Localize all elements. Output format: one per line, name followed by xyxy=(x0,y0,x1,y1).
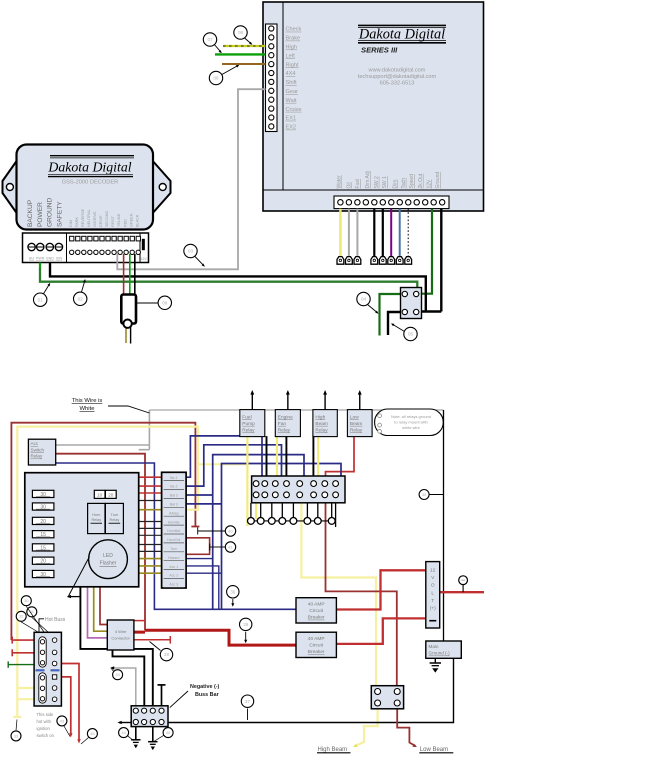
svg-text:Oil: Oil xyxy=(347,182,353,188)
svg-text:SECOND: SECOND xyxy=(105,210,109,227)
svg-text:12V: 12V xyxy=(140,257,147,261)
svg-text:30: 30 xyxy=(40,572,46,578)
svg-text:GSS-2000 DECODER: GSS-2000 DECODER xyxy=(62,180,119,186)
svg-text:44: 44 xyxy=(121,730,126,735)
svg-text:15: 15 xyxy=(40,532,46,538)
svg-text:Bat 3: Bat 3 xyxy=(170,494,178,498)
svg-text:www.dakotadigital.com: www.dakotadigital.com xyxy=(368,68,426,74)
svg-text:EX2: EX2 xyxy=(286,125,297,131)
svg-text:(+): (+) xyxy=(430,606,436,612)
svg-text:O/DRIVE: O/DRIVE xyxy=(93,211,97,227)
svg-text:EX1: EX1 xyxy=(286,116,297,122)
svg-text:03: 03 xyxy=(188,249,194,254)
svg-text:DIM: DIM xyxy=(69,220,73,227)
svg-text:HornOut: HornOut xyxy=(167,538,180,542)
svg-text:High: High xyxy=(315,415,325,421)
svg-text:Relay: Relay xyxy=(31,454,43,459)
svg-text:Fan: Fan xyxy=(278,421,287,427)
svg-text:Negative (-): Negative (-) xyxy=(190,684,220,690)
svg-text:39: 39 xyxy=(243,622,248,627)
svg-text:ignition: ignition xyxy=(37,726,51,731)
svg-text:05: 05 xyxy=(408,332,414,337)
svg-text:09: 09 xyxy=(162,300,168,305)
svg-text:Hot Buss: Hot Buss xyxy=(45,617,66,623)
svg-text:Speed: Speed xyxy=(409,174,415,189)
svg-text:04: 04 xyxy=(361,297,367,302)
svg-text:37: 37 xyxy=(245,699,250,704)
svg-text:HornBat: HornBat xyxy=(167,529,180,533)
svg-text:techsupport@dakotadigital.com: techsupport@dakotadigital.com xyxy=(358,74,437,80)
svg-text:34: 34 xyxy=(115,672,120,677)
svg-text:Beam: Beam xyxy=(315,421,328,427)
svg-text:41: 41 xyxy=(228,544,233,549)
svg-text:RED: RED xyxy=(123,219,127,227)
svg-text:Relay: Relay xyxy=(350,427,363,433)
svg-text:YEL/BK: YEL/BK xyxy=(117,213,121,227)
svg-text:Acc 2: Acc 2 xyxy=(169,574,178,578)
svg-text:Horn: Horn xyxy=(92,513,100,517)
svg-text:Flasher: Flasher xyxy=(100,561,117,567)
svg-text:PWR: PWR xyxy=(36,257,45,261)
svg-text:4 Wire: 4 Wire xyxy=(115,629,127,634)
svg-text:32: 32 xyxy=(19,614,24,619)
svg-text:2k Out: 2k Out xyxy=(418,173,424,188)
svg-text:Beam: Beam xyxy=(350,421,363,427)
svg-text:BU: BU xyxy=(29,257,34,261)
svg-text:Acc 3: Acc 3 xyxy=(169,583,178,587)
svg-text:02: 02 xyxy=(78,296,84,301)
svg-text:LED: LED xyxy=(103,553,113,559)
svg-text:07: 07 xyxy=(207,37,213,42)
svg-text:Circuit: Circuit xyxy=(309,608,323,614)
svg-text:BLACK: BLACK xyxy=(135,214,139,227)
svg-text:IGN: IGN xyxy=(56,257,63,261)
svg-text:Relay: Relay xyxy=(278,427,291,433)
svg-text:43: 43 xyxy=(60,718,65,723)
svg-text:SW 2: SW 2 xyxy=(374,176,380,188)
svg-text:Engine: Engine xyxy=(278,415,293,421)
svg-text:POWER: POWER xyxy=(37,202,44,227)
svg-text:Wait: Wait xyxy=(286,98,297,104)
svg-text:Ground: Ground xyxy=(435,172,441,189)
svg-text:30: 30 xyxy=(40,492,46,498)
svg-text:GREEN: GREEN xyxy=(129,213,133,227)
svg-text:Hazard: Hazard xyxy=(168,556,179,560)
svg-text:NEUTRAL: NEUTRAL xyxy=(87,209,91,227)
svg-text:Check: Check xyxy=(286,27,302,33)
svg-text:45: 45 xyxy=(90,731,95,736)
svg-text:Ba 1: Ba 1 xyxy=(170,476,177,480)
svg-text:Connector: Connector xyxy=(111,636,130,641)
svg-text:Brake: Brake xyxy=(286,36,301,42)
svg-text:High: High xyxy=(286,45,298,51)
svg-text:Buss Bar: Buss Bar xyxy=(195,692,220,698)
svg-text:Fuel: Fuel xyxy=(355,179,361,189)
svg-text:This Wire is: This Wire is xyxy=(72,398,103,404)
svg-text:A/Bag: A/Bag xyxy=(169,511,179,515)
svg-text:12V: 12V xyxy=(426,179,432,189)
svg-text:40 AMP: 40 AMP xyxy=(308,636,325,642)
svg-text:10: 10 xyxy=(97,492,103,497)
svg-text:Breaker: Breaker xyxy=(308,615,325,621)
svg-text:T: T xyxy=(431,598,434,604)
svg-text:Pump: Pump xyxy=(242,421,255,427)
svg-text:Note: all relays ground: Note: all relays ground xyxy=(391,414,431,419)
svg-text:FIRST: FIRST xyxy=(111,215,115,227)
svg-text:20: 20 xyxy=(108,492,114,497)
svg-text:Cruise: Cruise xyxy=(286,107,302,113)
svg-text:38: 38 xyxy=(164,652,169,657)
svg-text:switch on: switch on xyxy=(37,733,55,738)
svg-text:hot with: hot with xyxy=(37,719,52,724)
svg-text:08: 08 xyxy=(238,30,244,35)
svg-text:40 AMP: 40 AMP xyxy=(308,602,325,608)
svg-text:Relay: Relay xyxy=(242,427,255,433)
svg-text:Tach: Tach xyxy=(401,178,407,189)
svg-text:30: 30 xyxy=(40,505,46,511)
svg-text:White: White xyxy=(79,406,95,412)
svg-text:BACKUP: BACKUP xyxy=(27,199,34,227)
svg-text:Switch: Switch xyxy=(31,447,45,452)
svg-text:4X4: 4X4 xyxy=(286,71,296,77)
svg-text:O: O xyxy=(431,583,435,589)
svg-text:20: 20 xyxy=(40,559,46,565)
svg-text:REVERSE: REVERSE xyxy=(81,208,85,227)
svg-text:605-332-6513: 605-332-6513 xyxy=(380,81,415,87)
svg-text:36: 36 xyxy=(230,589,235,594)
svg-text:GND: GND xyxy=(46,257,54,261)
svg-text:Circuit: Circuit xyxy=(309,643,323,649)
svg-text:Dim Adj: Dim Adj xyxy=(365,171,371,188)
svg-text:Gear: Gear xyxy=(286,89,299,95)
svg-text:SERIES III: SERIES III xyxy=(361,46,398,55)
svg-text:Acc 1: Acc 1 xyxy=(169,565,178,569)
svg-text:Relay: Relay xyxy=(110,518,120,522)
svg-text:Dim: Dim xyxy=(392,180,398,189)
svg-text:46: 46 xyxy=(166,730,171,735)
svg-text:HornBe: HornBe xyxy=(168,520,180,524)
svg-text:GROUND: GROUND xyxy=(47,197,54,227)
svg-text:33: 33 xyxy=(14,733,19,738)
svg-text:Fuel: Fuel xyxy=(242,415,251,421)
svg-text:PARK: PARK xyxy=(75,216,79,227)
svg-text:35: 35 xyxy=(422,492,427,497)
svg-text:Shift: Shift xyxy=(286,80,298,86)
svg-text:This side: This side xyxy=(37,712,54,717)
svg-text:06: 06 xyxy=(213,76,219,81)
svg-text:Ba 2: Ba 2 xyxy=(170,485,177,489)
svg-text:Turn: Turn xyxy=(111,513,119,517)
svg-text:High Beam: High Beam xyxy=(318,747,348,753)
svg-text:Main: Main xyxy=(429,644,439,649)
svg-text:12: 12 xyxy=(430,568,436,574)
svg-text:Left: Left xyxy=(286,53,296,59)
svg-text:Ground (-): Ground (-) xyxy=(429,651,451,656)
svg-text:Water: Water xyxy=(337,175,343,188)
svg-text:Low: Low xyxy=(350,415,359,421)
svg-text:40: 40 xyxy=(228,528,233,533)
svg-text:Bat 3: Bat 3 xyxy=(170,503,178,507)
svg-text:Acc: Acc xyxy=(31,441,39,446)
svg-text:Relay: Relay xyxy=(91,518,101,522)
svg-text:to relay mount with: to relay mount with xyxy=(394,420,428,425)
svg-text:15: 15 xyxy=(40,545,46,551)
svg-text:Right: Right xyxy=(286,62,300,68)
svg-text:white wire: white wire xyxy=(402,425,421,430)
svg-text:DRIVE: DRIVE xyxy=(99,215,103,227)
svg-text:Turn: Turn xyxy=(170,547,177,551)
svg-text:Dakota Digital: Dakota Digital xyxy=(47,160,131,175)
svg-text:Breaker: Breaker xyxy=(308,649,325,655)
svg-text:Dakota Digital: Dakota Digital xyxy=(358,27,445,43)
svg-text:SAFETY: SAFETY xyxy=(56,201,63,227)
svg-text:20: 20 xyxy=(40,519,46,525)
svg-text:SW 1: SW 1 xyxy=(382,176,388,188)
svg-text:Low Beam: Low Beam xyxy=(420,747,448,753)
svg-text:L: L xyxy=(431,590,434,596)
svg-text:30: 30 xyxy=(24,598,29,603)
svg-text:01: 01 xyxy=(38,297,44,302)
svg-text:Relay: Relay xyxy=(315,427,328,433)
